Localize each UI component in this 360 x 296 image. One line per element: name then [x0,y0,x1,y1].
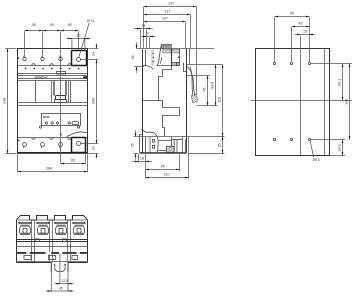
clamp bottom corner curve [143,66,154,70]
toggle centre wall [171,49,173,67]
svg-text:45: 45 [68,23,72,27]
top terminal teardrop hole pole 2 [41,56,44,61]
dim 5 (outside arrows) [141,36,156,38]
extension lines dim 30 [72,39,85,51]
dim 18 bottom (outside arrows) [132,161,152,163]
top strip semicircular notch 1 [32,64,36,66]
base bottom edge [17,260,88,262]
svg-text:15: 15 [303,30,307,34]
cover joint line [18,73,88,75]
leader from bottom pole4 hole to right dim [81,143,99,145]
svg-text:Ø 11: Ø 11 [87,19,95,23]
bottom terminal teardrop pole 2 [41,143,45,148]
dim 110 bottom [146,177,189,179]
ext line y153.5 right [188,153,224,155]
svg-text:110: 110 [164,173,170,177]
marker triangle above bottom strip [60,134,62,137]
toggle grip shading right [172,49,179,53]
mounting hole bottom 1 [273,138,275,140]
top edge with notches [20,216,83,221]
DIN rail tab [51,263,68,272]
dim 45 (pole2-pole3) [43,30,61,32]
face panel divider left [35,81,37,103]
rear channel wall left [300,49,302,156]
dim 90 top [275,16,310,18]
bottom clamp small square upper [152,139,154,142]
dim 34.1 [342,140,344,156]
bottom clamp hatch column [148,137,151,153]
base mid line [17,246,88,248]
rear bracket wall [189,49,191,65]
dim 45 (pole1-pole2) [25,30,43,32]
extension for dim 65 right [85,154,87,164]
ext lines 35 left [134,153,139,155]
dim 45 vertical [207,76,209,106]
bottom centre channel lines [158,141,171,151]
svg-text:18: 18 [141,24,145,28]
breaker body outline front view [18,49,88,154]
svg-text:137: 137 [168,2,174,6]
bottom rear pair walls [182,137,185,152]
bottom-right terminal box pole 4 (bold) [72,138,86,153]
bottom rear block walls [172,137,178,152]
ext verticals dim 18 top [141,30,147,49]
front face line [142,50,144,153]
dim 90.1 [342,64,344,101]
accessory cover box [42,114,81,126]
dim 65 [61,163,86,165]
svg-text:90.1: 90.1 [337,79,341,86]
front mid line [143,100,159,102]
svg-text:22.5: 22.5 [62,279,68,283]
accessory cover window [72,122,78,125]
svg-text:35: 35 [131,143,135,147]
pole divider walls [32,220,71,263]
front clamp tick marks [152,54,154,62]
ext verticals top dims [144,7,197,94]
bottom view body outline [17,216,88,263]
svg-text:107: 107 [162,17,168,21]
rear channel wall right [324,49,326,156]
ext line dim 39 bottom [134,66,144,68]
bottom terminal teardrop pole 1 [23,143,27,148]
bottom rear grey block [167,146,175,152]
svg-text:39: 39 [131,56,135,60]
rail clip marks [35,239,39,242]
front clamp inner wall left [145,50,147,66]
dim 15 (outside arrows) [295,34,315,36]
face screw hole left [39,126,41,128]
svg-text:65: 65 [71,159,75,163]
pole 4 terminal screw hole [77,58,81,62]
dim 45 bottom (outside arrows) [46,290,74,292]
bottom clamp small square lower [152,145,154,148]
rear mid parting line [251,100,353,102]
toggle right wall [179,49,181,63]
toggle lever curved edge [157,44,161,65]
svg-text:248: 248 [3,98,7,104]
ext line y136 right [134,136,225,138]
DIN tab inner cup [54,264,67,266]
svg-text:34.1: 34.1 [337,144,341,151]
bottom block diagonal shoulder [142,129,153,132]
dim 140 [349,64,351,140]
base small rect 1 [24,256,31,260]
svg-text:184: 184 [46,167,52,171]
ext line lug bottom [197,105,218,107]
right dim line vertical [96,43,98,48]
pole 2 terminal [36,220,51,234]
rear bracket bottom line [187,64,223,66]
rear face line [186,49,188,153]
pole 4 terminal [72,220,87,234]
extension line pole1 [24,31,26,56]
face panel margin lines [52,81,69,103]
body bottom bold edge [18,152,88,154]
bottom rear block top line [172,139,183,141]
left edge tick marks bottom strip [18,139,19,142]
svg-text:Ø5.5: Ø5.5 [313,158,320,162]
pole 1 terminal [18,220,33,234]
escutcheon bottom line [157,65,180,67]
dim 22.5 (outside arrows) [55,283,74,285]
face lower double lines [18,103,88,106]
svg-text:94: 94 [161,165,165,169]
extensions for dim 184 [18,154,88,173]
svg-text:45: 45 [32,23,36,27]
leader line to pole4 hole [79,23,89,58]
right extension top edge [88,48,98,50]
extension line pole2 [42,31,44,56]
svg-text:24: 24 [92,146,96,150]
mounting hole top 1 [273,62,275,64]
bottom terminal strip joint line [18,137,88,139]
svg-text:117: 117 [165,10,171,14]
dim 184 [18,171,88,173]
svg-text:18: 18 [140,157,144,161]
svg-text:45: 45 [299,22,303,26]
toggle grip shading left [163,49,172,53]
dim 117 [144,14,191,16]
mounting hole top 3 [308,62,310,64]
bottom block cup curve [152,132,158,152]
svg-text:45: 45 [50,23,54,27]
svg-text:63.5: 63.5 [210,82,214,89]
right extension bottom edge [88,153,98,155]
toggle grip above line [161,44,171,48]
base joint double line [17,240,88,242]
leader lines to right dims [311,64,352,156]
svg-text:140: 140 [344,99,348,105]
escutcheon rear step [184,63,187,72]
svg-text:90: 90 [290,12,294,16]
dim 63.5 vertical [215,65,217,106]
top terminal strip joint line [18,65,88,67]
svg-text:45: 45 [203,88,207,92]
svg-text:5: 5 [147,32,149,36]
bottom strip semicircular notch 2 [50,138,54,140]
dim 18 (outside arrows) [134,28,153,30]
pole 4 bottom screw hole [77,142,81,146]
body bottom edge [140,152,187,154]
mounting hole bottom 3 [308,138,310,140]
base dark segmented band [17,252,88,254]
torn-away barrier wavy line [67,132,88,137]
mounting hole top 2 [290,62,292,64]
base small rect 3 [72,256,78,260]
mounting hole bottom 2 [290,138,292,140]
face panel divider right [70,81,72,103]
svg-text:200: 200 [92,98,96,104]
label band bottom line [18,78,88,80]
front clamp grey band [151,50,154,65]
dim 39 left (outside arrows) [136,42,138,48]
bottom strip semicircular notch 1 [32,138,36,140]
ext verticals bottom dims [139,137,189,179]
dim 45 top [292,26,310,28]
base small rect 2 [49,256,56,260]
rear cable lug S-curve [187,67,195,96]
top strip semicircular notch 3 [68,64,72,66]
face top line [18,80,88,82]
bottom strip semicircular notch 3 [68,138,72,140]
dim 45 (pole3-pole4) [61,30,79,32]
dim 248 [7,49,9,154]
label band top line [18,75,88,77]
hole extension verticals [275,18,310,63]
left dim 248 extension lines [5,49,16,154]
escutcheon small box [177,63,180,66]
rear panel outline [256,49,330,156]
left edge tick marks top strip [18,57,19,60]
lug clamp hatched tip [191,94,197,103]
dim 30 (outside arrows) [66,38,90,40]
extension line pole4 [78,31,80,50]
escutcheon pivot [179,57,180,58]
face screw hole right [77,126,79,128]
case parting staircase line [159,66,180,137]
dim 110 vertical right [222,65,224,137]
svg-text:30: 30 [76,33,80,37]
tab centre line [59,254,61,284]
extension line pole3 (through view) [60,31,62,163]
dim 94 [146,169,180,171]
dim 137 [144,6,197,8]
svg-text:110: 110 [218,97,222,103]
bottom rear block hatch [167,146,175,152]
slot on cover joint [57,72,66,75]
top strip semicircular notch 2 [50,64,54,66]
svg-text:35: 35 [218,143,222,147]
svg-text:24: 24 [92,52,96,56]
dim 35 right [222,137,224,154]
bottom terminal teardrop pole 3 [59,143,63,148]
handle channel walls [54,81,67,96]
ext vertical dim 5 [149,38,151,49]
front bottom stub [140,135,143,153]
type label dark patch [83,76,87,78]
bottom clamp inner wall [145,137,147,152]
escutcheon step lines [172,63,180,65]
toggle handle base [55,100,67,103]
accessory cover dashes [43,116,49,118]
screw dots row [25,68,80,70]
svg-text:45: 45 [59,287,63,291]
leader from pole4 hole to right dim [81,59,99,61]
top terminal teardrop hole pole 3 [59,56,62,61]
accessory cover circles [45,122,47,124]
ext verticals bottom dims [51,272,68,292]
top reference line [137,48,215,50]
top terminal teardrop hole pole 1 [23,56,26,61]
hole callout Ø5.5 leader [310,141,314,158]
front clamp inner wall right [151,50,153,66]
dim 35 left (outside arrows) [135,130,137,136]
pole 3 terminal [54,220,69,234]
dim 107 [144,21,186,23]
top-right terminal box pole 4 (bold) [72,51,87,66]
lug top extension line [187,75,210,77]
toggle handle grip [56,96,66,100]
